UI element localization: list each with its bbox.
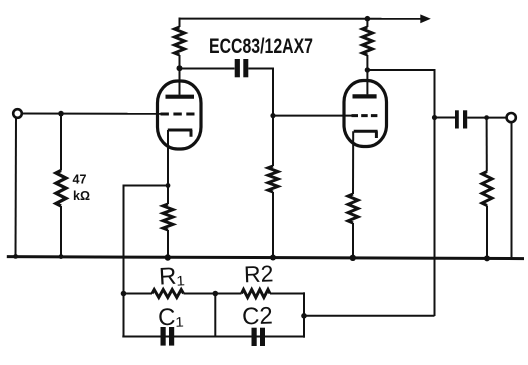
resistor R2	[242, 290, 271, 298]
wire: cathode resistor to earth rail	[167, 230, 169, 258]
node: V1 cathode to rail	[165, 254, 171, 260]
resistor: anode load of V2	[362, 27, 372, 55]
capacitor C2	[252, 328, 266, 346]
wire: anode node to coupling capacitor	[180, 68, 235, 70]
terminal: input jack	[13, 109, 22, 118]
wire: 47k to earth rail	[60, 206, 62, 257]
wire: V2 cathode lead	[352, 131, 354, 194]
grid (dashed) V2	[352, 114, 378, 117]
wire: middle vertical link	[214, 294, 216, 337]
wire: V1 anode lead into tube	[179, 69, 181, 95]
wire: grid line down to 47k	[60, 114, 62, 171]
node: load resistor to rail	[484, 255, 490, 261]
wire: input earth return	[15, 118, 18, 257]
wire: V2 anode lead into tube	[366, 70, 368, 94]
resistor: 47 kohm grid resistor	[56, 171, 66, 207]
node: middle junction R1-R2	[213, 291, 219, 297]
resistor: anode load of V1	[175, 27, 185, 55]
svg-text:C2: C2	[242, 302, 274, 330]
cathode bar V1	[168, 130, 193, 137]
anode plate bar V1	[166, 95, 195, 99]
wire: V2 cathode resistor to earth rail	[352, 223, 354, 258]
resistor: V1 cathode bias	[163, 204, 173, 230]
node: input earth to rail	[13, 254, 18, 259]
svg-text:ECC83/12AX7: ECC83/12AX7	[209, 35, 313, 58]
wire: coupling cap to V2 grid branch	[248, 69, 273, 117]
wire: grid junction down to grid resistor	[272, 116, 274, 166]
wire: R1 to middle node	[184, 293, 242, 295]
node: output cap junction	[432, 115, 437, 120]
node: V2 grid junction	[270, 113, 275, 118]
capacitor C1	[161, 327, 175, 346]
wire: output terminal earth return	[511, 122, 513, 258]
wire: rail corner down to anode resistor V1	[179, 18, 181, 28]
svg-text:R₁: R₁	[158, 262, 185, 290]
wire: right vertical of network	[303, 292, 305, 337]
svg-text:R2: R2	[244, 260, 274, 287]
svg-text:47: 47	[73, 173, 87, 187]
resistor: output load / grid of next stage	[482, 172, 492, 206]
node: 47k top junction	[58, 111, 64, 117]
op envelope: triode V1 (ECC83/12AX7)	[158, 81, 202, 149]
capacitor: interstage coupling cap	[235, 59, 249, 77]
node: feedback take-off	[301, 313, 307, 319]
node: cathode feedback tap	[166, 183, 171, 188]
wire: V2 anode to output column	[367, 70, 434, 316]
node: grid resistor to rail	[270, 255, 276, 261]
node: V1 anode junction	[177, 65, 183, 71]
wire: HT+ supply rail	[180, 18, 422, 20]
cathode bar V2	[354, 131, 378, 138]
wire: V1 cathode lead	[167, 130, 169, 204]
wire: input to V1 grid	[22, 113, 161, 115]
wire: load resistor to earth rail	[486, 206, 488, 259]
wire: R2 right lead	[270, 293, 304, 295]
wire: R1 left lead	[124, 293, 153, 295]
wire: output cap to terminal	[467, 117, 506, 119]
resistor: V2 grid leak	[268, 166, 278, 192]
wire: grid resistor to earth rail	[272, 192, 274, 258]
wire: C line bottom	[122, 336, 304, 338]
node: V2 anode junction	[365, 67, 370, 72]
grid (dashed) V1	[161, 113, 195, 116]
node: V2 cathode to rail	[350, 255, 356, 261]
wire: load resistor upper lead	[486, 118, 488, 172]
node: R1 left	[121, 291, 127, 297]
resistor: V2 cathode bias	[348, 194, 358, 223]
wire: V2 anode resistor top	[366, 19, 368, 27]
wire: network to anode column (NFB)	[304, 315, 435, 317]
svg-text:kΩ: kΩ	[73, 189, 90, 203]
resistor R1	[152, 290, 184, 298]
wire: V2 anode resistor to anode node	[366, 55, 368, 70]
arrow: HT+ direction	[420, 14, 431, 23]
svg-text:C₁: C₁	[158, 304, 184, 332]
wire: anode column to output capacitor	[435, 117, 456, 119]
capacitor: output coupling cap	[455, 110, 467, 128]
wire: anode resistor to anode node	[179, 55, 181, 69]
wire: feedback branch from V1 cathode	[124, 186, 169, 294]
node: junction V2 anode resistor to rail	[365, 16, 371, 22]
node: 47k to rail	[59, 254, 64, 259]
wire: grid lead of V2	[273, 115, 352, 117]
wire: feedback line left vertical to network	[123, 294, 125, 337]
envelope: triode V2 (ECC83/12AX7)	[344, 81, 387, 147]
anode plate bar V2	[353, 94, 377, 98]
terminal: output jack	[507, 113, 516, 122]
wire: earth/ground rail	[7, 257, 524, 259]
node: output load junction	[484, 115, 489, 120]
